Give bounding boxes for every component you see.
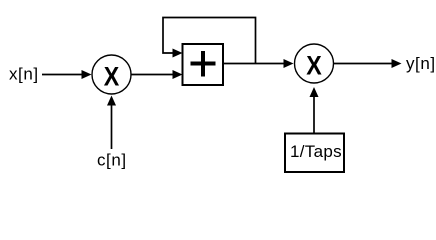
svg-text:c[n]: c[n] [97, 151, 127, 170]
adder A1 plus symbol [191, 51, 216, 77]
wire: M2 to y[n] [334, 59, 402, 68]
coefficient label c[n] [97, 151, 127, 170]
svg-text:y[n]: y[n] [406, 54, 436, 73]
gain block label 1/Taps [290, 142, 342, 161]
wire: 1/Taps up to multiplier M2 [310, 87, 319, 134]
output label y[n] [406, 54, 436, 73]
multiplier M2 [295, 44, 334, 83]
wire: M1 to adder A1 [132, 70, 183, 79]
svg-text:x[n]: x[n] [9, 65, 39, 84]
wire: adder A1 to multiplier M2 [223, 59, 294, 68]
svg-text:1/Taps: 1/Taps [290, 142, 342, 161]
svg-text:X: X [306, 51, 322, 81]
adder A1 box [183, 44, 224, 85]
svg-text:X: X [104, 62, 120, 92]
wire: c[n] up to multiplier M1 [107, 96, 116, 150]
input label x[n] [9, 65, 39, 84]
gain block 1/Taps box [285, 134, 344, 173]
multiplier M1 [92, 55, 131, 94]
wire: x[n] to multiplier M1 [42, 70, 92, 79]
feedback wire: adder output back to adder input [163, 18, 256, 64]
